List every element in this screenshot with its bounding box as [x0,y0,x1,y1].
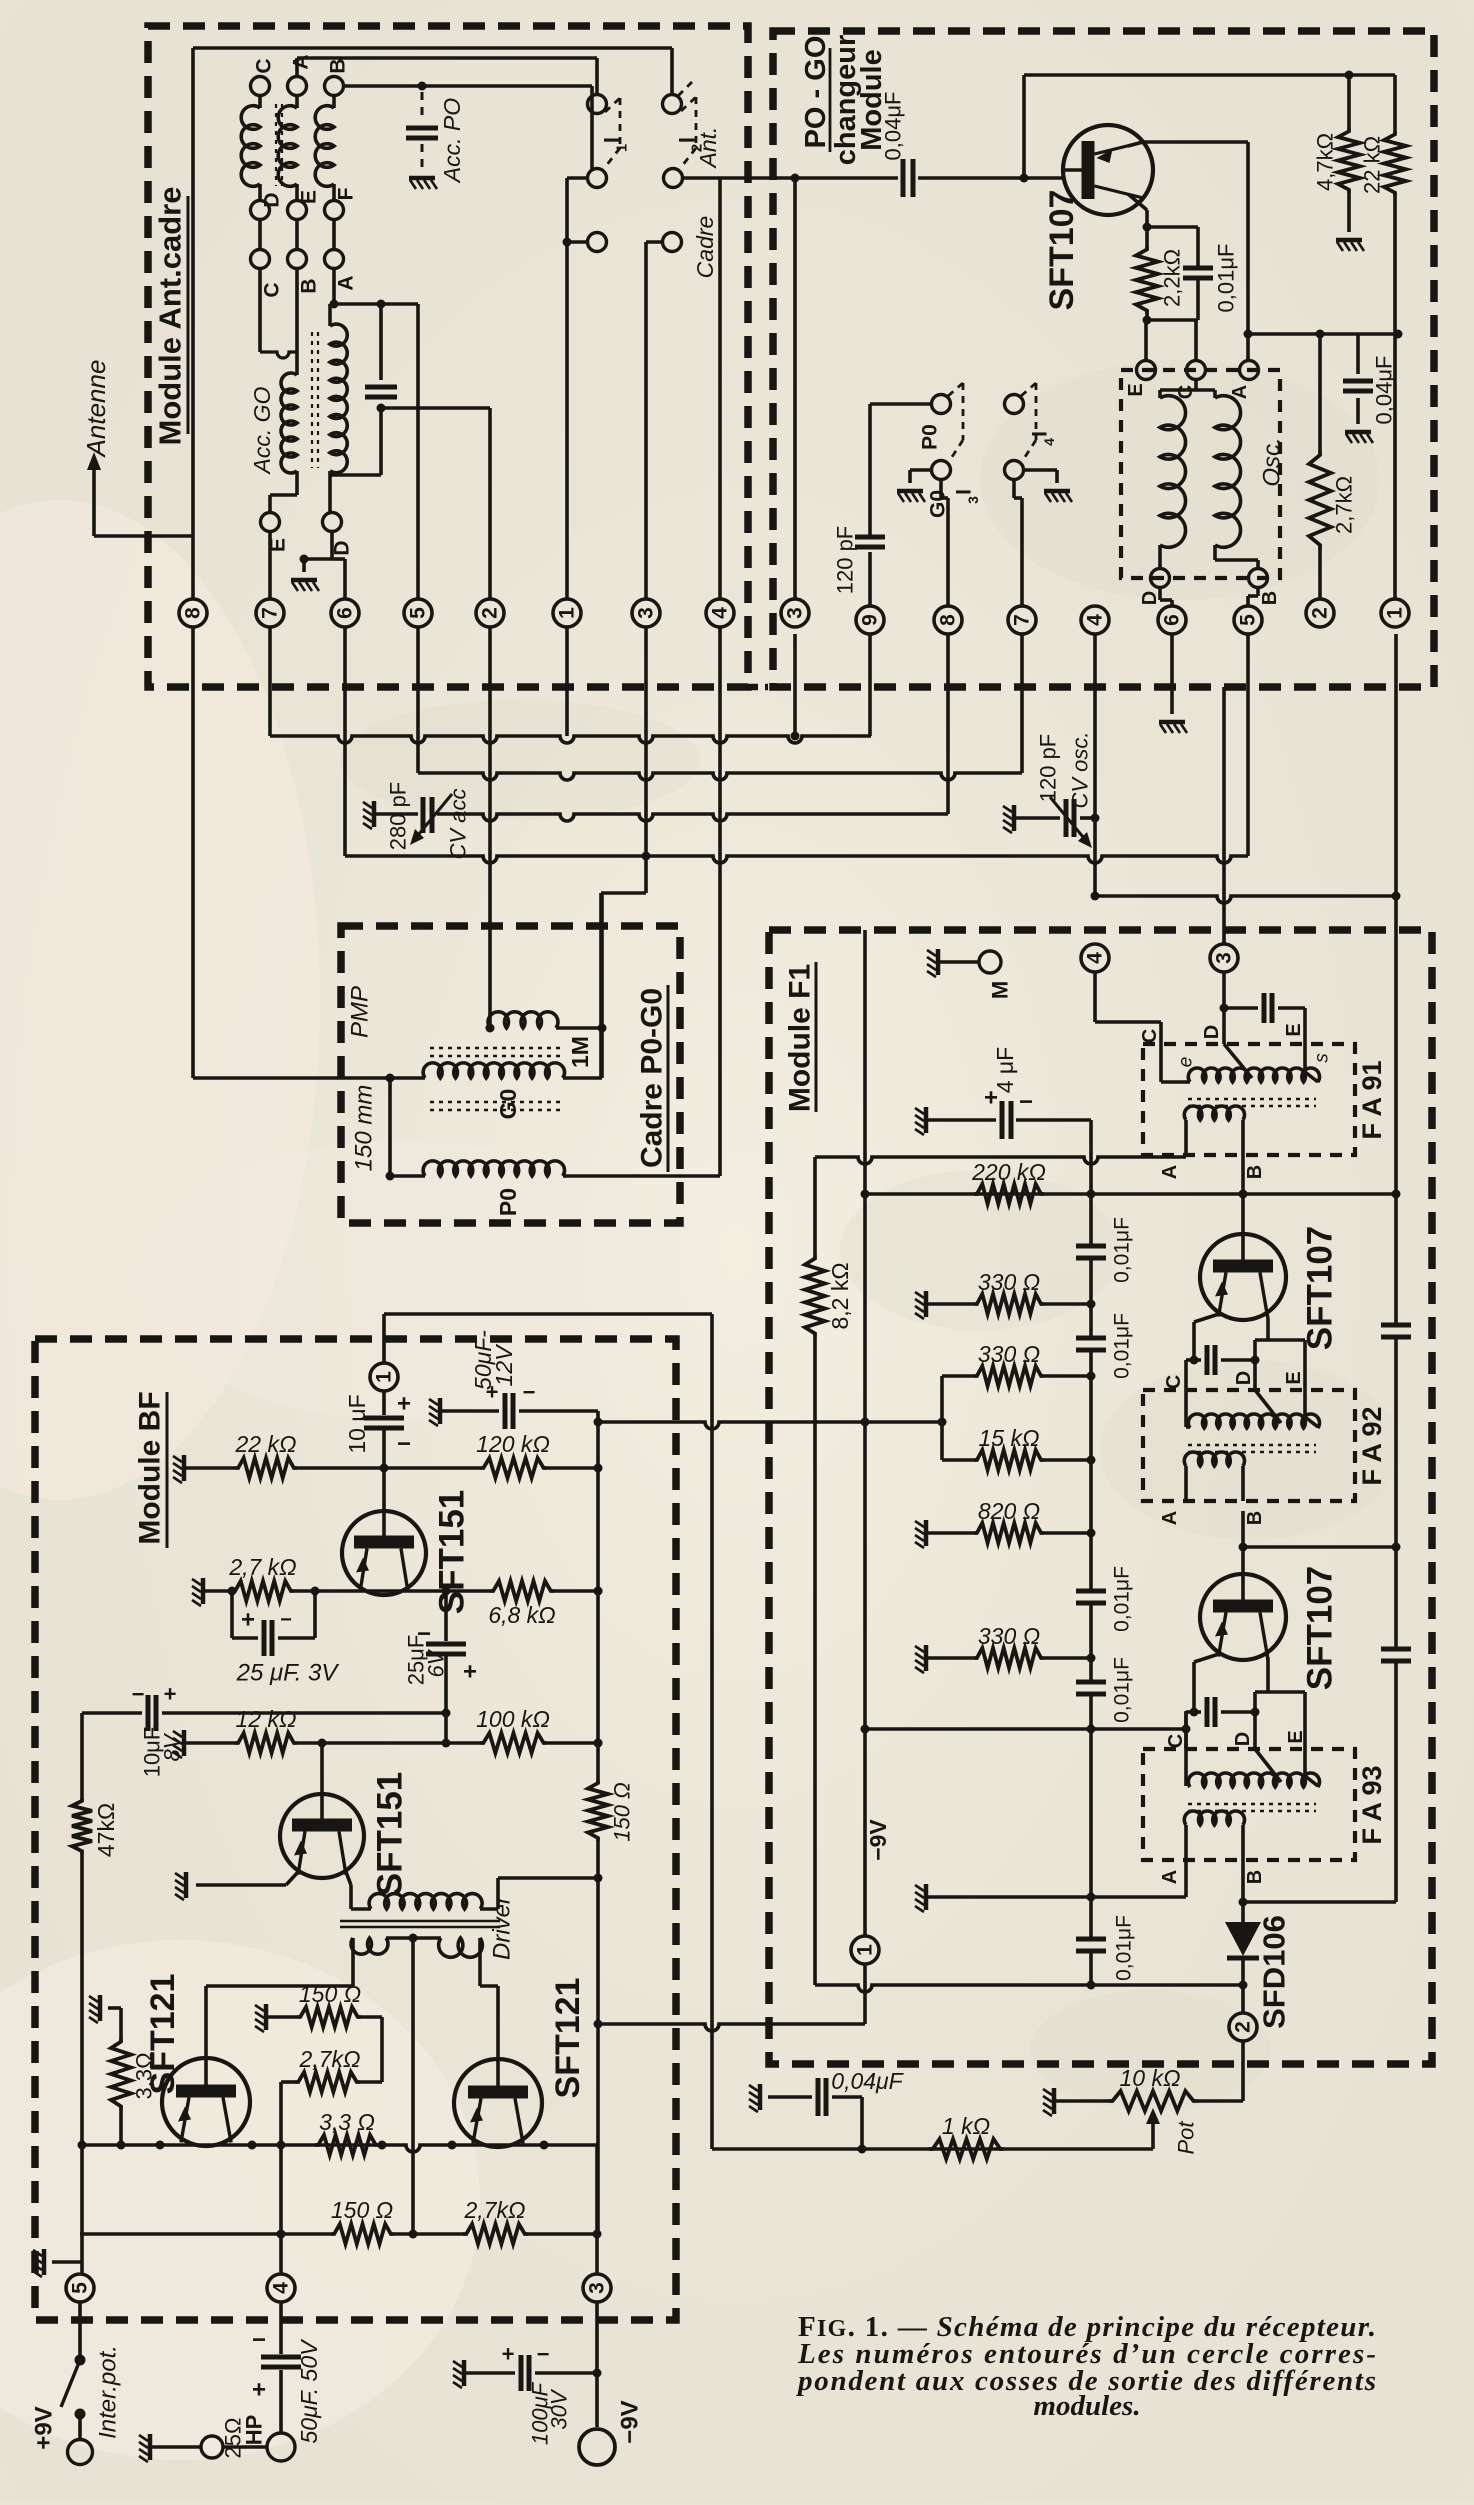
svg-text:Cadre P0-G0: Cadre P0-G0 [636,988,669,1168]
svg-text:PO - GO: PO - GO [800,36,832,149]
svg-text:3: 3 [586,2282,609,2294]
svg-text:s: s [1312,1053,1333,1063]
svg-text:I: I [953,489,976,495]
svg-text:3: 3 [965,496,981,504]
svg-text:220 kΩ: 220 kΩ [971,1159,1046,1185]
svg-text:F: F [335,187,358,200]
svg-text:I: I [1029,431,1052,437]
svg-text:0,04μF: 0,04μF [1372,356,1397,425]
svg-text:8: 8 [182,607,205,619]
svg-text:CV osc.: CV osc. [1068,731,1093,808]
svg-text:Pot: Pot [1174,2121,1199,2155]
svg-text:D: D [331,540,354,555]
svg-text:E: E [1283,1023,1305,1036]
svg-text:+: + [397,1391,411,1418]
svg-text:SFT151: SFT151 [371,1772,410,1897]
svg-text:22 kΩ: 22 kΩ [1360,136,1385,194]
svg-text:330 Ω: 330 Ω [978,1341,1040,1367]
svg-text:Driver: Driver [489,1895,516,1960]
svg-text:0,01μF: 0,01μF [1111,1313,1134,1379]
svg-text:Ant.: Ant. [695,127,721,170]
svg-text:0,01μF: 0,01μF [1113,1915,1136,1981]
svg-text:330 Ω: 330 Ω [978,1269,1040,1295]
svg-text:150 Ω: 150 Ω [331,2197,393,2223]
svg-text:12 kΩ: 12 kΩ [236,1706,297,1732]
svg-text:150 mm: 150 mm [351,1085,378,1172]
svg-text:C: C [1165,1734,1187,1748]
svg-text:SFT151: SFT151 [433,1490,472,1615]
svg-text:Cadre: Cadre [692,216,718,279]
svg-text:4 μF: 4 μF [992,1047,1018,1093]
svg-text:P0: P0 [919,424,942,450]
svg-text:10 μF: 10 μF [344,1394,370,1453]
svg-text:D: D [1139,591,1161,605]
svg-text:+: + [252,2377,266,2404]
svg-text:changeur: changeur [830,35,862,166]
svg-text:modules.: modules. [1033,2390,1140,2422]
svg-text:A: A [1159,1511,1181,1525]
svg-text:Module F1: Module F1 [784,964,817,1112]
svg-text:4: 4 [1084,614,1107,626]
svg-text:E: E [1285,1730,1307,1743]
svg-text:Module BF: Module BF [134,1391,167,1544]
svg-text:0,01μF: 0,01μF [1111,1566,1134,1632]
svg-text:6: 6 [334,607,357,619]
svg-text:F A 92: F A 92 [1357,1406,1387,1485]
svg-text:2: 2 [1309,607,1332,619]
svg-text:8,2 kΩ: 8,2 kΩ [827,1262,853,1329]
svg-text:2,7kΩ: 2,7kΩ [1332,476,1357,534]
svg-text:7: 7 [259,607,282,619]
svg-text:G0: G0 [927,490,950,518]
svg-text:I: I [600,137,625,143]
svg-text:25Ω: 25Ω [221,2418,246,2459]
svg-text:120 pF: 120 pF [833,526,858,595]
svg-text:0,04μF: 0,04μF [831,2068,904,2094]
svg-text:6,8 kΩ: 6,8 kΩ [488,1602,555,1628]
svg-text:SFT107: SFT107 [1301,1566,1340,1691]
svg-text:22 kΩ: 22 kΩ [235,1431,297,1457]
svg-text:+9V: +9V [31,2406,58,2449]
svg-text:1: 1 [854,1944,877,1956]
svg-text:3,3Ω: 3,3Ω [132,2052,157,2099]
svg-text:−: − [537,2342,550,2367]
svg-text:C: C [1139,1029,1161,1043]
svg-text:4: 4 [1084,952,1107,964]
svg-text:SFT107: SFT107 [1301,1226,1340,1351]
svg-text:3,3 Ω: 3,3 Ω [319,2109,375,2135]
svg-text:D: D [261,192,284,207]
svg-text:+: + [463,1659,477,1686]
svg-text:9: 9 [859,614,882,626]
svg-text:+: + [164,1682,177,1707]
svg-text:−: − [1019,1089,1033,1116]
svg-text:−: − [397,1431,411,1458]
svg-text:A: A [290,54,313,69]
svg-text:−9V: −9V [865,1819,891,1861]
svg-text:−: − [280,1609,292,1631]
svg-text:4: 4 [270,2282,293,2294]
svg-text:0,01μF: 0,01μF [1111,1217,1134,1283]
svg-text:D: D [1201,1025,1223,1039]
svg-text:SFT121: SFT121 [549,1978,587,2099]
svg-text:+: + [502,2342,515,2367]
svg-text:25 μF. 3V: 25 μF. 3V [236,1660,340,1687]
svg-text:2: 2 [1232,2021,1255,2033]
svg-text:1: 1 [1384,607,1407,619]
svg-text:Acc. PO: Acc. PO [439,98,465,184]
svg-text:0,04μF: 0,04μF [881,92,906,161]
svg-text:280 pF: 280 pF [386,782,411,851]
svg-text:F A 91: F A 91 [1357,1060,1387,1139]
svg-text:e: e [1176,1057,1197,1068]
svg-text:4: 4 [709,607,732,619]
svg-text:4: 4 [1041,438,1057,446]
svg-text:Acc. GO: Acc. GO [249,386,275,475]
svg-text:1: 1 [556,607,579,619]
svg-text:D: D [1232,1732,1254,1746]
svg-text:120 pF: 120 pF [1036,734,1061,803]
svg-text:Antenne: Antenne [81,360,111,459]
svg-text:SFT107: SFT107 [1043,190,1081,311]
svg-text:6V: 6V [424,1648,449,1677]
svg-text:150 Ω: 150 Ω [610,1782,635,1842]
svg-text:B: B [1244,1870,1266,1884]
svg-text:C: C [261,282,284,297]
svg-text:3: 3 [1213,952,1236,964]
svg-text:6: 6 [1161,614,1184,626]
svg-text:2,7 kΩ: 2,7 kΩ [228,1554,296,1580]
svg-text:1: 1 [373,1371,396,1383]
svg-text:30V: 30V [547,2388,572,2429]
svg-text:120 kΩ: 120 kΩ [476,1431,550,1457]
svg-text:Module Ant.cadre: Module Ant.cadre [153,187,188,446]
svg-text:5: 5 [1237,614,1260,626]
svg-text:2,7kΩ: 2,7kΩ [464,2197,526,2223]
svg-text:B: B [298,278,321,293]
svg-text:−: − [252,2327,266,2354]
svg-text:47kΩ: 47kΩ [93,1803,119,1857]
svg-text:1: 1 [614,144,631,152]
svg-text:B: B [327,58,350,73]
svg-text:5: 5 [407,607,430,619]
svg-text:PMP: PMP [347,986,374,1038]
svg-text:E: E [298,190,321,204]
svg-text:A: A [335,275,358,290]
svg-text:Inter.pot.: Inter.pot. [95,2345,122,2439]
svg-text:100 kΩ: 100 kΩ [476,1706,550,1732]
svg-text:0,01μF: 0,01μF [1111,1657,1134,1723]
svg-text:CV acc: CV acc [446,789,471,860]
svg-text:150 Ω: 150 Ω [299,1981,361,2007]
svg-text:1M: 1M [567,1036,593,1068]
svg-text:330 Ω: 330 Ω [978,1623,1040,1649]
svg-text:4,7kΩ: 4,7kΩ [1313,133,1338,191]
svg-text:B: B [1244,1165,1266,1179]
svg-text:D: D [1233,1371,1255,1385]
svg-text:−: − [523,1380,536,1405]
svg-text:5: 5 [69,2282,92,2294]
svg-text:SFD106: SFD106 [1257,1915,1292,2029]
svg-text:820 Ω: 820 Ω [978,1498,1040,1524]
svg-text:15 kΩ: 15 kΩ [979,1425,1040,1451]
svg-text:−9V: −9V [617,2400,644,2443]
svg-text:Osc.: Osc. [1259,437,1286,486]
svg-text:E: E [1125,383,1147,396]
svg-text:2,7kΩ: 2,7kΩ [299,2046,361,2072]
svg-text:A: A [1159,1165,1181,1179]
svg-text:B: B [1244,1511,1266,1525]
svg-text:C: C [1163,1375,1185,1389]
svg-text:B: B [1259,591,1281,605]
svg-text:P0: P0 [495,1188,521,1216]
svg-text:50μF. 50V: 50μF. 50V [296,2338,322,2444]
svg-text:10 kΩ: 10 kΩ [1120,2065,1181,2091]
svg-text:A: A [1159,1870,1181,1884]
svg-text:F A 93: F A 93 [1357,1765,1387,1844]
svg-text:3: 3 [784,607,807,619]
svg-text:C: C [253,58,276,73]
svg-text:7: 7 [1011,614,1034,626]
svg-text:8: 8 [937,614,960,626]
svg-text:12V: 12V [491,1343,517,1387]
svg-text:M: M [988,981,1013,999]
svg-text:2: 2 [479,607,502,619]
svg-text:1 kΩ: 1 kΩ [942,2113,990,2139]
svg-text:E: E [1283,1371,1305,1384]
svg-text:2,2kΩ: 2,2kΩ [1160,249,1185,307]
svg-text:+: + [241,1607,255,1634]
svg-text:0,01μF: 0,01μF [1214,244,1239,313]
svg-text:3: 3 [635,607,658,619]
svg-text:G0: G0 [495,1089,521,1120]
svg-text:−: − [132,1682,145,1707]
